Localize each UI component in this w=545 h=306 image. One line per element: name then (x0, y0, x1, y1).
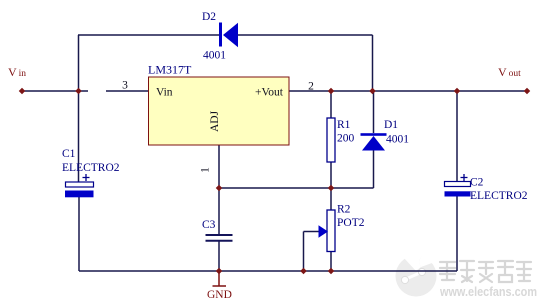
svg-text:POT2: POT2 (337, 217, 365, 229)
junction wiper bottom (300, 268, 307, 275)
capacitor C3 (202, 219, 233, 241)
wire: output rail pin2 to V out (289, 90, 527, 92)
junction GND (216, 268, 223, 275)
svg-text:+Vout: +Vout (255, 87, 284, 99)
wire: pin 3 stub (106, 90, 149, 92)
svg-text:4001: 4001 (203, 50, 226, 62)
resistor R1 (327, 118, 355, 162)
svg-text:D1: D1 (384, 119, 398, 131)
svg-text:ADJ: ADJ (209, 110, 221, 132)
watermark logo (396, 251, 437, 296)
wire: C2 bottom branch (456, 196, 458, 271)
svg-text:2: 2 (308, 81, 314, 93)
node V out terminal (498, 65, 530, 94)
wire: top rail right of D2 (238, 34, 373, 36)
svg-text:ELECTRO2: ELECTRO2 (62, 162, 120, 174)
svg-text:Vin: Vin (156, 87, 173, 99)
wire: input V in to junction (22, 90, 88, 92)
svg-text:4001: 4001 (386, 134, 409, 146)
svg-text:GND: GND (207, 289, 232, 301)
svg-text:1: 1 (200, 167, 212, 173)
junction R2 bottom (328, 268, 335, 275)
junction C2 top (454, 88, 461, 95)
svg-text:3: 3 (122, 80, 128, 92)
wire: D1 top (373, 91, 375, 133)
wire: C3 top branch (218, 188, 220, 234)
wire: C1 bottom (78, 197, 80, 271)
diode D1 (361, 119, 410, 151)
wire: wiper riser (303, 232, 305, 272)
wire: R2 top (330, 188, 332, 210)
wire: bottom rail (79, 270, 457, 272)
wire: right riser to output rail (372, 35, 374, 91)
svg-text:LM317T: LM317T (148, 63, 192, 77)
svg-text:D2: D2 (202, 11, 216, 23)
junction D1 top (369, 88, 376, 95)
svg-text:C2: C2 (470, 177, 484, 189)
junction R1 top (328, 88, 335, 95)
wire: R2 bottom (330, 251, 332, 271)
op-amp regulator U1 LM317T box (148, 63, 289, 146)
wire: R1 bottom (330, 162, 332, 188)
svg-text:ELECTRO2: ELECTRO2 (470, 190, 528, 202)
watermark chinese text (440, 261, 531, 282)
diode D2 (202, 11, 238, 62)
svg-text:R1: R1 (337, 119, 351, 131)
ground symbol GND (207, 272, 232, 301)
wire: top rail left of D2 (78, 34, 219, 36)
wire: ADJ rail (219, 187, 374, 189)
svg-text:www.elecfans.com: www.elecfans.com (439, 284, 537, 299)
wire: ADJ pin 1 (218, 145, 220, 188)
wire: D1 bottom (373, 150, 375, 188)
capacitor C1 (62, 148, 120, 197)
node V in terminal (8, 65, 26, 94)
wire: C2 top branch (456, 91, 458, 182)
capacitor C2 (445, 174, 528, 202)
wire: C3 bottom branch (218, 241, 220, 271)
junction ADJ pin1 (216, 185, 223, 192)
wire: left riser top rail to C1 (78, 35, 80, 182)
wire: R1 top (330, 91, 332, 118)
junction at input (75, 88, 82, 95)
svg-text:200: 200 (337, 133, 355, 145)
svg-text:C3: C3 (202, 219, 216, 231)
potentiometer R2 (319, 204, 365, 252)
svg-text:C1: C1 (62, 148, 76, 160)
svg-text:R2: R2 (337, 204, 351, 216)
wire: wiper tail (304, 231, 319, 233)
junction R1 bottom (328, 185, 335, 192)
